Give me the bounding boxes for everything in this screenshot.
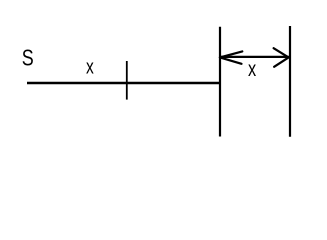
svg-text:x: x: [248, 58, 257, 82]
svg-text:x: x: [86, 56, 94, 78]
wall line 1: [219, 27, 221, 137]
dimension arrow: [220, 48, 289, 67]
svg-text:S: S: [22, 45, 34, 71]
tick mark: [126, 61, 128, 100]
wire baseline: [27, 82, 220, 84]
wall line 2: [289, 26, 291, 137]
